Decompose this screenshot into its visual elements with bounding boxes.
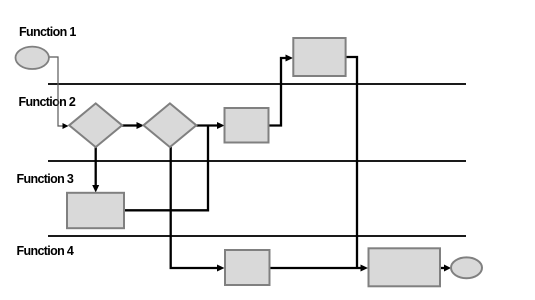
wire process P3 feedback up to junction bbox=[124, 126, 208, 211]
process P3 (Function 3 rect) bbox=[67, 193, 124, 228]
wire diamond D2 down to process P4 bbox=[171, 147, 219, 268]
start ellipse bbox=[16, 47, 49, 69]
wire process P5 to end ellipse bbox=[440, 267, 446, 269]
process P4 (Function 4 small rect) bbox=[225, 250, 270, 285]
wire start ellipse to diamond D1 bbox=[49, 57, 63, 126]
diamond D1 bbox=[69, 103, 122, 147]
svg-text:Function 2: Function 2 bbox=[19, 95, 76, 109]
svg-text:Function 3: Function 3 bbox=[17, 172, 74, 186]
wire process P4 to process P5 bbox=[270, 267, 363, 269]
lane divider line 3 bbox=[48, 235, 466, 237]
wire diamond D1 to diamond D2 bbox=[122, 124, 138, 126]
lane divider line 1 bbox=[48, 83, 466, 85]
wire diamond D1 down to process P3 bbox=[95, 147, 97, 187]
svg-text:Function 1: Function 1 bbox=[19, 25, 76, 39]
wire process P1 down to junction J2 bbox=[346, 57, 358, 268]
diamond D2 bbox=[144, 103, 197, 147]
process P1 (Function 1 rect) bbox=[293, 38, 345, 76]
end ellipse bbox=[451, 257, 482, 278]
lane divider line 2 bbox=[48, 160, 466, 162]
wire diamond D2 to process P2 bbox=[196, 124, 219, 126]
svg-text:Function 4: Function 4 bbox=[17, 244, 74, 258]
process P5 (Function 4 big rect) bbox=[369, 248, 441, 286]
wire process P2 to process P1 bbox=[269, 58, 287, 126]
process P2 (Function 2 rect) bbox=[225, 108, 269, 143]
